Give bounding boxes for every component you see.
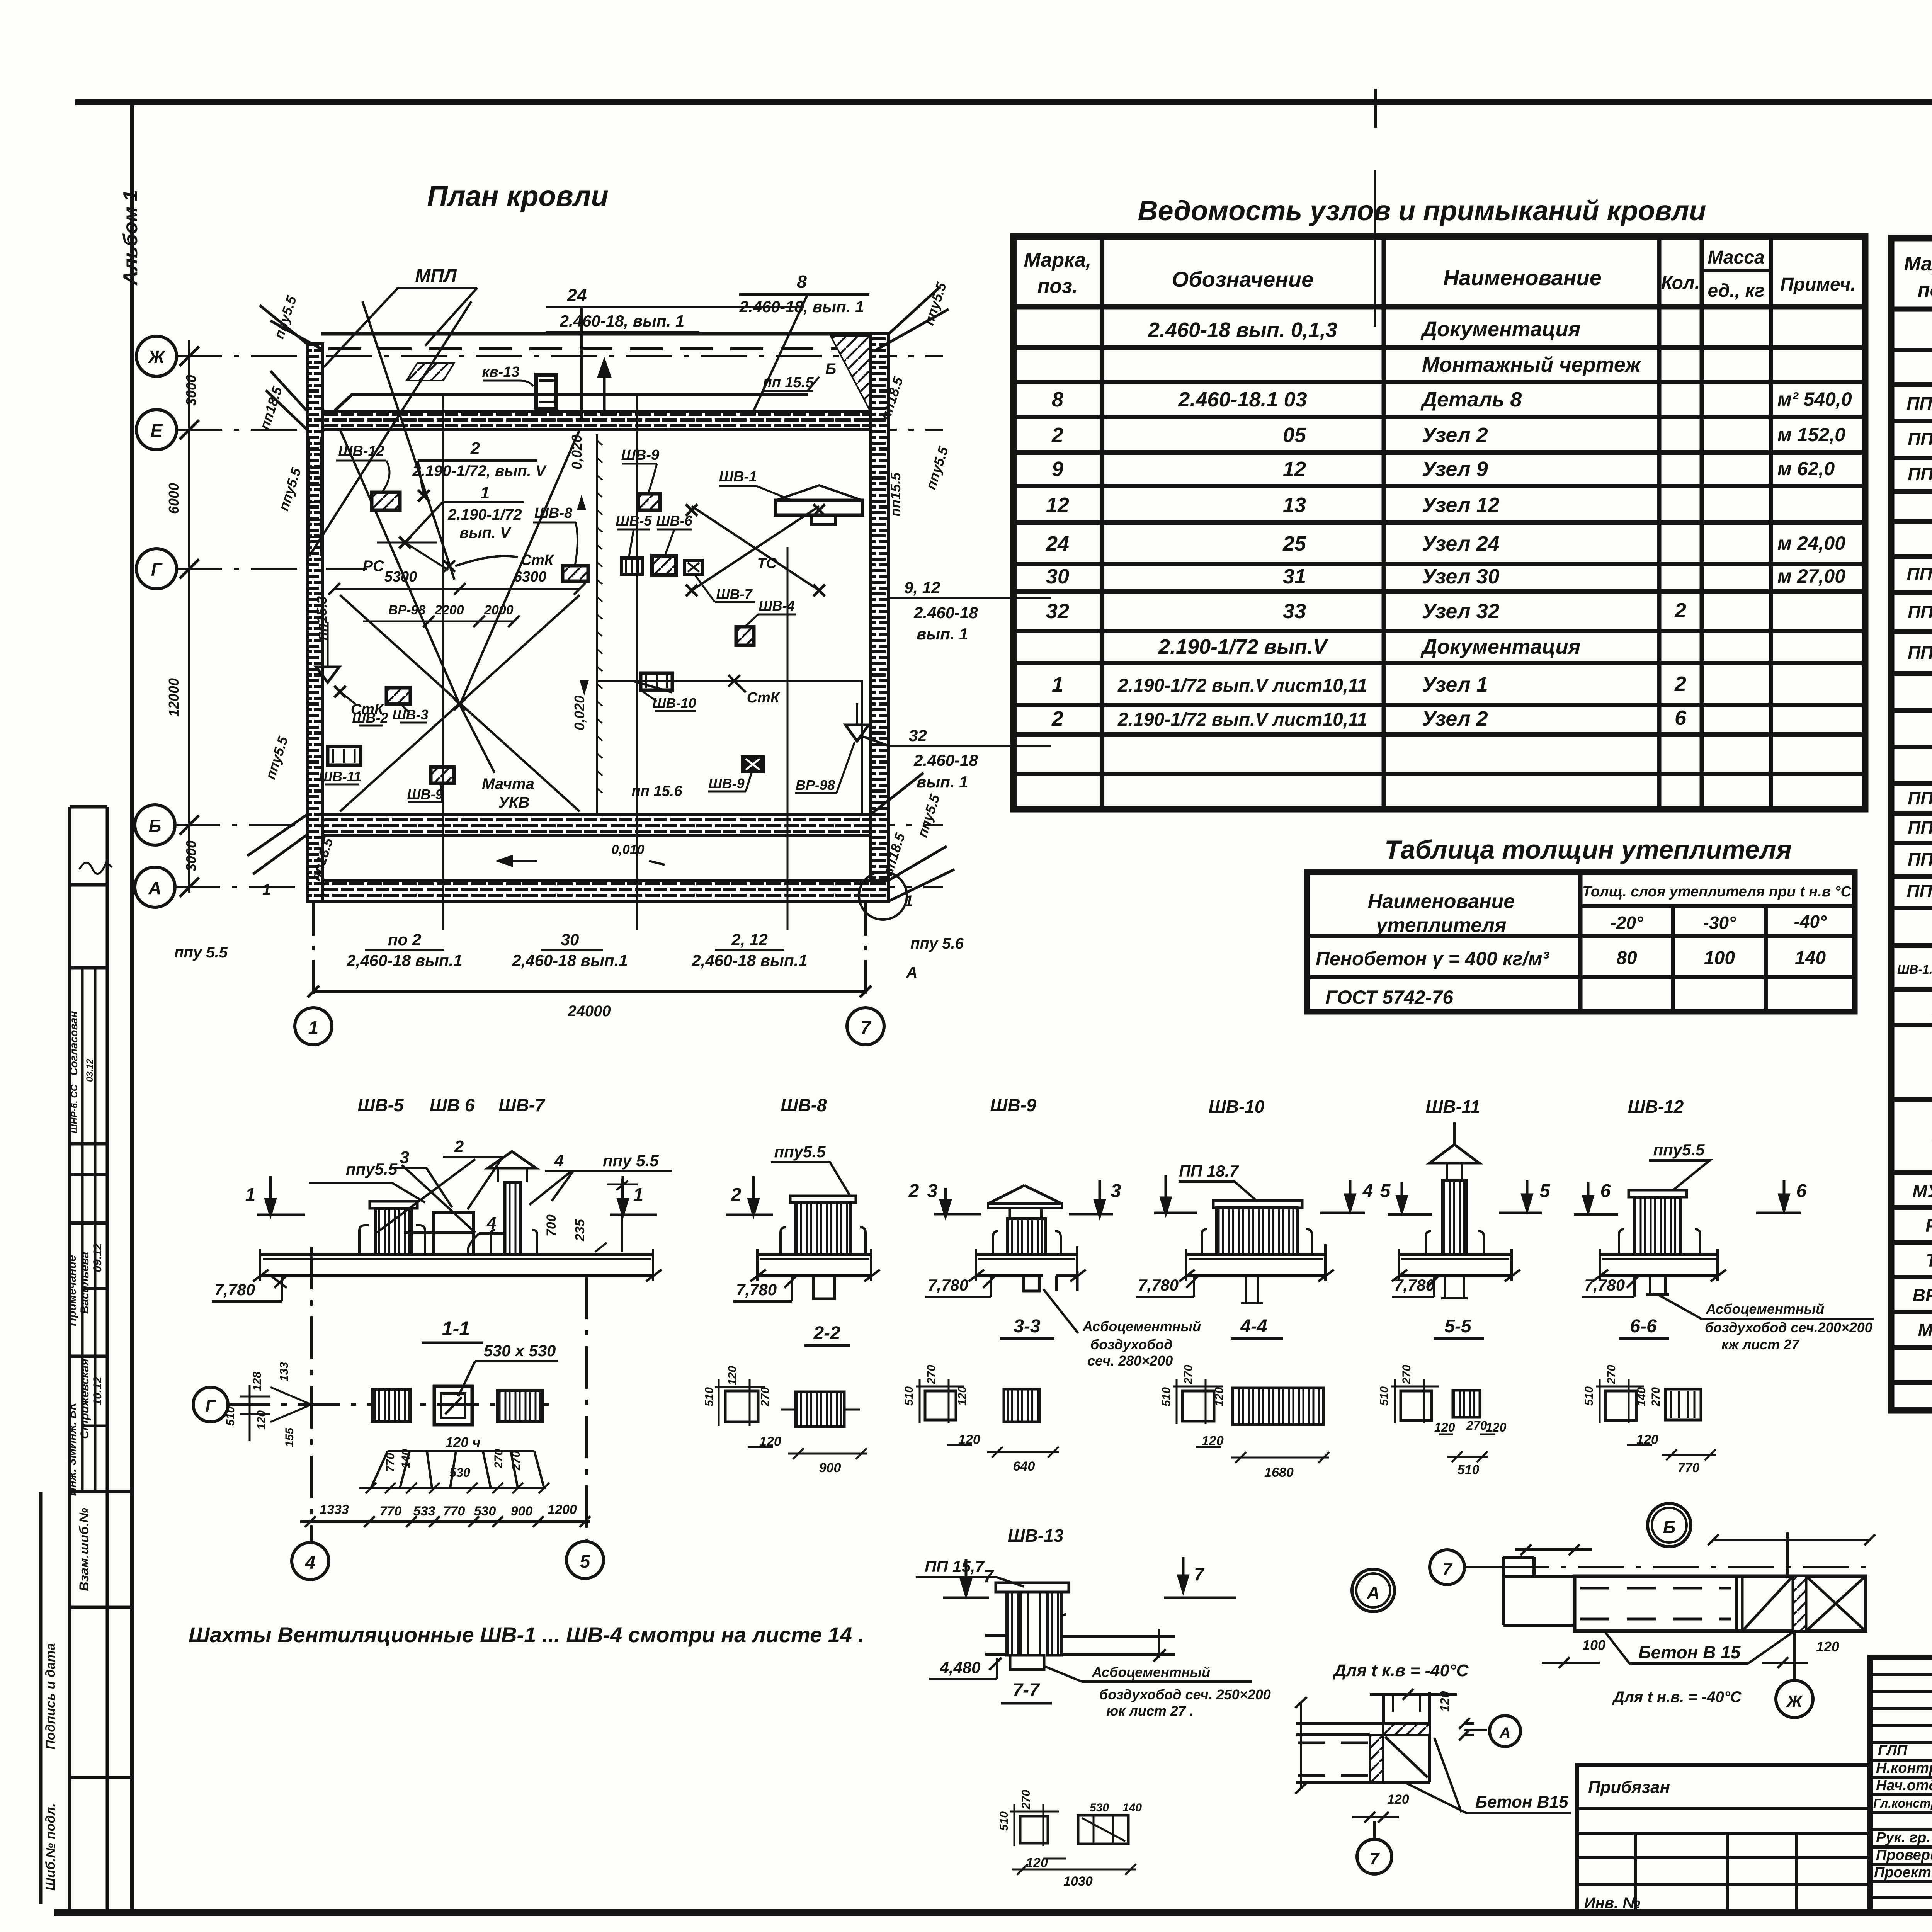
ШВ-9 section — [969, 1185, 1086, 1291]
svg-text:м 24,00: м 24,00 — [1777, 532, 1845, 554]
svg-text:270: 270 — [492, 1449, 505, 1469]
svg-text:пп18.5: пп18.5 — [257, 384, 286, 432]
svg-text:МПЛ: МПЛ — [1918, 1320, 1932, 1340]
svg-text:ПП18.7: ПП18.7 — [1908, 818, 1932, 838]
svg-text:5: 5 — [580, 1551, 591, 1572]
svg-text:кж лист 27: кж лист 27 — [1721, 1337, 1800, 1352]
svg-text:Ж: Ж — [148, 347, 166, 367]
svg-text:1: 1 — [262, 881, 271, 898]
svg-text:120: 120 — [956, 1386, 969, 1406]
svg-text:м 152,0: м 152,0 — [1777, 424, 1845, 446]
svg-text:2.190-1/72 вып.V лист10,11: 2.190-1/72 вып.V лист10,11 — [1117, 709, 1367, 730]
svg-text:УКВ: УКВ — [498, 794, 530, 811]
svg-text:1030: 1030 — [1063, 1874, 1093, 1889]
svg-text:530: 530 — [474, 1504, 496, 1519]
paper fold crease — [1374, 170, 1376, 327]
svg-text:140: 140 — [1122, 1801, 1142, 1814]
svg-text:530 х 530: 530 х 530 — [484, 1342, 556, 1360]
svg-text:ППУ5.5: ППУ5.5 — [1906, 881, 1932, 901]
svg-text:100: 100 — [1704, 948, 1735, 968]
svg-text:2: 2 — [1674, 672, 1686, 696]
svg-text:Узел 12: Узел 12 — [1422, 493, 1500, 517]
svg-text:ПП15.4: ПП15.4 — [1908, 643, 1932, 663]
svg-text:боздухобод сеч.200×200: боздухобод сеч.200×200 — [1705, 1320, 1872, 1335]
svg-text:120: 120 — [1026, 1855, 1048, 1870]
svg-text:270: 270 — [1182, 1365, 1195, 1384]
svg-text:8: 8 — [797, 272, 807, 292]
svg-text:140: 140 — [400, 1449, 412, 1468]
svg-text:Прибязан: Прибязан — [1588, 1778, 1670, 1797]
svg-text:30: 30 — [1046, 565, 1069, 588]
svg-text:4-4: 4-4 — [1240, 1316, 1267, 1337]
svg-text:Узел 24: Узел 24 — [1422, 532, 1500, 555]
svg-text:32: 32 — [909, 726, 927, 745]
top border line — [75, 99, 1932, 105]
svg-text:0,020: 0,020 — [571, 696, 587, 730]
svg-text:270: 270 — [925, 1365, 938, 1384]
svg-text:2.460-18: 2.460-18 — [913, 604, 978, 622]
svg-text:м 27,00: м 27,00 — [1777, 565, 1845, 587]
svg-text:Узел 2: Узел 2 — [1422, 707, 1488, 730]
svg-text:Асбоцементный: Асбоцементный — [1082, 1318, 1201, 1334]
left dimension chain — [188, 340, 190, 893]
svg-text:Асбоцементный: Асбоцементный — [1092, 1664, 1210, 1680]
svg-text:270: 270 — [1020, 1790, 1032, 1810]
svg-text:ППУ5.5: ППУ5.5 — [1906, 564, 1932, 584]
svg-text:Нач.отд.: Нач.отд. — [1876, 1777, 1932, 1794]
svg-text:510: 510 — [998, 1811, 1010, 1831]
svg-text:510: 510 — [1378, 1386, 1391, 1406]
svg-text:утеплителя: утеплителя — [1375, 914, 1506, 937]
svg-text:Проверил: Проверил — [1876, 1847, 1932, 1863]
svg-text:05: 05 — [1283, 423, 1306, 447]
ВР-98 right funnel — [845, 725, 869, 741]
svg-text:1-1: 1-1 — [442, 1318, 470, 1339]
svg-text:ШВ-11: ШВ-11 — [319, 769, 362, 784]
building walls — [307, 334, 889, 901]
kv-13 box on top strip — [536, 375, 556, 409]
big interior diagonals left half — [309, 301, 580, 811]
left frame vertical — [130, 102, 134, 1913]
svg-text:120 ч: 120 ч — [445, 1434, 480, 1450]
svg-text:ВР-98: ВР-98 — [388, 603, 425, 617]
axis grid dash-dot lines — [176, 355, 943, 357]
svg-text:МПЛ: МПЛ — [415, 266, 457, 286]
1-1 vertical axes — [311, 1247, 587, 1542]
svg-text:ппу5.5: ппу5.5 — [276, 466, 304, 513]
svg-text:ШВ-3: ШВ-3 — [392, 707, 428, 723]
svg-text:24: 24 — [566, 285, 587, 305]
svg-text:2.190-1/72 вып.V: 2.190-1/72 вып.V — [1158, 635, 1328, 658]
svg-text:Узел 1: Узел 1 — [1422, 673, 1488, 696]
svg-text:ПП18.8: ПП18.8 — [1908, 788, 1932, 808]
ШВ-9 left — [431, 767, 454, 783]
svg-text:4: 4 — [305, 1553, 316, 1573]
top centre tick — [1374, 89, 1377, 128]
svg-text:ШВ-12: ШВ-12 — [338, 443, 384, 459]
svg-text:100: 100 — [1582, 1637, 1605, 1653]
shaft 3 tall — [505, 1182, 520, 1255]
svg-text:А: А — [1366, 1583, 1379, 1603]
svg-text:м 62,0: м 62,0 — [1777, 458, 1835, 480]
svg-text:Г: Г — [205, 1396, 216, 1415]
svg-text:7,780: 7,780 — [1584, 1276, 1625, 1294]
svg-text:А: А — [906, 964, 918, 981]
svg-text:пп 15.6: пп 15.6 — [632, 783, 683, 799]
1-1 boxes — [372, 1389, 410, 1422]
svg-text:7,780: 7,780 — [1138, 1276, 1179, 1294]
svg-text:6: 6 — [1796, 1181, 1807, 1201]
svg-text:боздухобод сеч. 250×200: боздухобод сеч. 250×200 — [1099, 1687, 1271, 1702]
bottom leader verticals — [443, 394, 787, 930]
svg-text:9: 9 — [1052, 457, 1063, 481]
svg-text:План кровли: План кровли — [427, 180, 609, 212]
outside rotated labels right — [878, 280, 964, 981]
svg-text:ШВ-7: ШВ-7 — [498, 1095, 546, 1115]
svg-text:2-2: 2-2 — [813, 1323, 840, 1344]
detail 2-2 — [715, 1379, 867, 1459]
svg-text:Ж: Ж — [1786, 1692, 1803, 1711]
svg-text:120: 120 — [1387, 1792, 1409, 1807]
document strip verticals — [70, 807, 107, 1912]
svg-text:Марка,: Марка, — [1024, 249, 1092, 271]
cut marks row — [257, 1175, 1801, 1216]
svg-text:5: 5 — [1380, 1181, 1391, 1201]
big interior diagonals right half — [597, 506, 862, 815]
svg-text:6: 6 — [1675, 706, 1687, 730]
svg-text:ШВ-11: ШВ-11 — [1425, 1097, 1480, 1117]
svg-text:6: 6 — [1600, 1181, 1611, 1201]
svg-text:80: 80 — [1616, 948, 1637, 968]
svg-text:510: 510 — [1458, 1463, 1480, 1477]
ladder МПЛ on left wall — [309, 437, 321, 556]
svg-text:2.460-18, вып. 1: 2.460-18, вып. 1 — [560, 312, 685, 330]
svg-text:ПП15.7: ПП15.7 — [1908, 849, 1932, 869]
svg-text:сеч. 280×200: сеч. 280×200 — [1087, 1353, 1173, 1369]
svg-text:Узел 9: Узел 9 — [1422, 457, 1488, 481]
svg-text:Документация: Документация — [1420, 635, 1580, 658]
svg-text:ШВ-9: ШВ-9 — [621, 447, 659, 463]
svg-text:140: 140 — [1795, 948, 1826, 968]
svg-text:7: 7 — [1194, 1564, 1205, 1584]
svg-text:270: 270 — [1400, 1365, 1413, 1384]
1-1 bottom dims — [320, 1502, 577, 1519]
svg-text:ппу5.5: ппу5.5 — [1653, 1141, 1705, 1159]
strip inner subcolumns — [70, 968, 107, 1492]
svg-text:120: 120 — [726, 1366, 739, 1385]
hatch patches on top strip — [406, 363, 454, 381]
Б node beam detail — [1503, 1532, 1875, 1680]
svg-text:ПП 18.7: ПП 18.7 — [1179, 1162, 1239, 1180]
svg-text:ШВ-13: ШВ-13 — [1008, 1526, 1064, 1546]
svg-text:900: 900 — [511, 1504, 533, 1519]
svg-text:Проектир.: Проектир. — [1874, 1864, 1932, 1881]
svg-text:Для t н.в. = -40°С: Для t н.в. = -40°С — [1612, 1689, 1742, 1706]
svg-text:510: 510 — [903, 1386, 915, 1406]
bottom dimension 24000 — [313, 990, 866, 993]
svg-text:2,460-18 вып.1: 2,460-18 вып.1 — [691, 951, 807, 969]
svg-text:120: 120 — [1434, 1420, 1455, 1434]
svg-text:Пенобетон γ = 400 кг/м³: Пенобетон γ = 400 кг/м³ — [1316, 948, 1549, 969]
strip handwriting squiggle — [79, 862, 112, 874]
funnel ВР-98 left — [316, 667, 339, 682]
svg-text:510: 510 — [1583, 1386, 1595, 1406]
svg-text:2.190-1/72 вып.V лист10,11: 2.190-1/72 вып.V лист10,11 — [1117, 675, 1367, 696]
svg-text:Кол.: Кол. — [1661, 273, 1700, 293]
svg-text:1: 1 — [633, 1185, 644, 1205]
РС mast — [399, 537, 411, 548]
1-1 left dims — [224, 1362, 296, 1447]
svg-text:09.12: 09.12 — [91, 1243, 104, 1272]
svg-text:Деталь 8: Деталь 8 — [1420, 388, 1522, 411]
svg-text:270: 270 — [1466, 1418, 1487, 1432]
detail 5-5 — [1391, 1379, 1495, 1462]
svg-text:ппу 5.5: ппу 5.5 — [603, 1151, 659, 1170]
left rotated dimensions — [166, 375, 199, 871]
svg-text:770: 770 — [384, 1453, 397, 1472]
svg-text:530: 530 — [1090, 1801, 1109, 1814]
svg-text:6-6: 6-6 — [1630, 1316, 1657, 1337]
svg-text:Рук. гр.: Рук. гр. — [1876, 1830, 1930, 1846]
svg-text:120: 120 — [1438, 1691, 1452, 1712]
node circle А standalone — [1352, 1569, 1395, 1612]
svg-text:7,780: 7,780 — [736, 1281, 777, 1299]
svg-text:2.190-1/72, вып. V: 2.190-1/72, вып. V — [412, 463, 547, 480]
svg-text:7-7: 7-7 — [1012, 1680, 1040, 1701]
svg-text:МУКВ: МУКВ — [1913, 1181, 1932, 1201]
svg-text:770: 770 — [380, 1504, 402, 1519]
svg-text:9, 12: 9, 12 — [904, 578, 940, 597]
svg-text:33: 33 — [1283, 600, 1306, 623]
svg-text:770: 770 — [1678, 1461, 1700, 1475]
svg-text:6000: 6000 — [166, 483, 182, 514]
svg-text:боздухобод: боздухобод — [1090, 1337, 1173, 1352]
svg-text:3-3: 3-3 — [1014, 1316, 1041, 1337]
bottom labels — [346, 930, 807, 969]
top roof strip — [321, 334, 871, 411]
svg-text:Узел 30: Узел 30 — [1422, 565, 1500, 588]
Г axis circle — [193, 1387, 228, 1422]
corner node circle on plan — [859, 872, 907, 920]
svg-text:ШВ-9: ШВ-9 — [990, 1095, 1036, 1115]
ШВ-12 section — [1593, 1190, 1726, 1294]
svg-text:770: 770 — [443, 1504, 465, 1519]
СтК 2 — [334, 686, 346, 697]
svg-text:Асбоцементный: Асбоцементный — [1706, 1301, 1824, 1317]
svg-text:30: 30 — [561, 930, 579, 949]
svg-text:ппу 5.6: ппу 5.6 — [910, 935, 964, 952]
ШВ-10 — [641, 673, 672, 690]
svg-text:ШВ-2: ШВ-2 — [352, 710, 388, 726]
svg-text:пп15.3: пп15.3 — [314, 596, 330, 640]
signature rows — [1873, 1726, 1932, 1881]
svg-text:2: 2 — [1051, 423, 1063, 447]
svg-text:120: 120 — [1202, 1434, 1224, 1448]
detail 3-3 — [916, 1379, 1059, 1458]
outside rotated labels left — [174, 294, 336, 961]
north arrow on strip — [599, 361, 610, 414]
svg-text:ппу5.5: ппу5.5 — [346, 1160, 398, 1178]
svg-text:4,480: 4,480 — [939, 1658, 980, 1677]
svg-text:2: 2 — [454, 1137, 464, 1156]
svg-text:ШВ-9: ШВ-9 — [407, 786, 443, 802]
svg-text:7: 7 — [983, 1566, 994, 1586]
svg-text:Наименование: Наименование — [1368, 890, 1515, 913]
svg-text:120: 120 — [958, 1432, 980, 1447]
svg-text:3: 3 — [1111, 1181, 1121, 1201]
ШВ-9 lower right — [742, 757, 764, 772]
svg-text:25: 25 — [1282, 532, 1306, 555]
svg-text:2: 2 — [731, 1185, 742, 1205]
svg-text:510: 510 — [1160, 1387, 1173, 1406]
svg-text:ШВ-6: ШВ-6 — [656, 513, 692, 529]
А node corner detail — [1295, 1689, 1457, 1794]
svg-text:юк лист 27 .: юк лист 27 . — [1106, 1703, 1194, 1719]
svg-text:поз.: поз. — [1918, 279, 1932, 301]
node circle 7 with leader — [1430, 1550, 1464, 1585]
svg-text:вып. 1: вып. 1 — [917, 773, 968, 791]
svg-text:120: 120 — [1636, 1432, 1658, 1447]
svg-text:03.12: 03.12 — [85, 1058, 95, 1082]
svg-text:155: 155 — [283, 1427, 296, 1447]
svg-text:ппу5.5: ппу5.5 — [921, 280, 950, 327]
svg-text:2, 12: 2, 12 — [731, 930, 767, 949]
svg-text:1200: 1200 — [548, 1502, 577, 1517]
svg-text:Васильева: Васильева — [78, 1252, 91, 1314]
СтК right — [728, 675, 746, 692]
svg-text:2: 2 — [1051, 707, 1063, 730]
svg-text:2: 2 — [470, 439, 480, 458]
svg-text:7: 7 — [1370, 1849, 1380, 1868]
svg-text:270: 270 — [510, 1451, 522, 1471]
svg-text:ТС: ТС — [1926, 1250, 1932, 1270]
svg-text:1: 1 — [308, 1018, 319, 1038]
svg-text:СтК: СтК — [521, 552, 554, 568]
svg-text:120: 120 — [255, 1410, 268, 1430]
svg-text:24: 24 — [1046, 532, 1069, 555]
svg-text:ШВ-4: ШВ-4 — [759, 598, 794, 614]
svg-text:2: 2 — [1674, 599, 1686, 622]
plan corner flare lines — [247, 288, 954, 901]
svg-text:вып. 1: вып. 1 — [917, 625, 968, 643]
bottom border line — [54, 1909, 1932, 1916]
svg-text:Монтажный чертеж: Монтажный чертеж — [1422, 353, 1642, 376]
svg-text:120: 120 — [1816, 1639, 1839, 1655]
svg-text:ГЛП: ГЛП — [1878, 1742, 1908, 1759]
svg-text:Толщ. слоя утеплителя при t н: Толщ. слоя утеплителя при t н.в °С — [1582, 884, 1851, 900]
svg-text:2,460-18 вып.1: 2,460-18 вып.1 — [346, 951, 462, 969]
svg-text:1680: 1680 — [1264, 1465, 1294, 1480]
svg-text:ПП 15,7: ПП 15,7 — [925, 1557, 985, 1575]
svg-text:3000: 3000 — [183, 840, 199, 871]
svg-text:ШВ-9: ШВ-9 — [708, 776, 744, 791]
svg-text:ппу 5.5: ппу 5.5 — [174, 944, 228, 961]
svg-text:700: 700 — [544, 1214, 559, 1236]
svg-text:13: 13 — [1283, 493, 1306, 517]
svg-text:ШВ-1: ШВ-1 — [719, 469, 757, 485]
svg-text:Взам.шиб.№: Взам.шиб.№ — [77, 1508, 92, 1591]
svg-text:7,780: 7,780 — [214, 1281, 255, 1299]
svg-text:РС: РС — [1925, 1216, 1932, 1236]
svg-text:м² 540,0: м² 540,0 — [1777, 388, 1852, 410]
svg-text:12: 12 — [1283, 457, 1306, 481]
svg-text:ШВ-5: ШВ-5 — [616, 513, 652, 529]
svg-text:Н.контр.: Н.контр. — [1876, 1760, 1932, 1776]
svg-text:Шиб.№ подл.: Шиб.№ подл. — [43, 1803, 58, 1891]
svg-text:Обозначение: Обозначение — [1172, 267, 1314, 291]
svg-text:пп 15.5: пп 15.5 — [763, 374, 814, 391]
svg-text:вып. V: вып. V — [459, 524, 512, 541]
svg-text:140: 140 — [1635, 1387, 1648, 1406]
svg-text:640: 640 — [1013, 1459, 1035, 1474]
svg-text:2.460-18.1 03: 2.460-18.1 03 — [1178, 388, 1307, 411]
svg-text:Альбом 1: Альбом 1 — [119, 190, 142, 286]
svg-text:А: А — [148, 878, 161, 898]
svg-text:270: 270 — [1650, 1387, 1662, 1407]
shaft 1 — [375, 1208, 412, 1255]
ШВ-8 section — [750, 1196, 880, 1299]
svg-text:235: 235 — [573, 1219, 587, 1242]
svg-text:ГОСТ 5742-76: ГОСТ 5742-76 — [1325, 986, 1454, 1008]
svg-text:Примечание: Примечание — [66, 1255, 78, 1326]
svg-text:ВР-98: ВР-98 — [796, 777, 835, 793]
strip rotated labels — [43, 1011, 104, 1891]
svg-text:ШВ-7: ШВ-7 — [716, 586, 753, 602]
svg-text:2000: 2000 — [484, 603, 514, 617]
svg-text:ППУ5.5: ППУ5.5 — [1906, 393, 1932, 413]
svg-text:2.460-18: 2.460-18 — [913, 751, 978, 769]
svg-text:270: 270 — [1605, 1365, 1618, 1384]
ШВ-11 section — [1392, 1122, 1520, 1298]
Прибязан box — [1577, 1765, 1870, 1913]
svg-text:Мачта: Мачта — [482, 776, 534, 793]
svg-text:ппу5.5: ппу5.5 — [923, 444, 952, 492]
svg-text:ед., кг: ед., кг — [1708, 281, 1765, 301]
svg-text:1333: 1333 — [320, 1502, 349, 1517]
detail 6-6 — [1596, 1379, 1716, 1460]
svg-text:Марка,: Марка, — [1904, 253, 1932, 275]
svg-text:ппу5.5: ппу5.5 — [262, 734, 291, 781]
bottom axis circles — [313, 901, 866, 994]
section titles row — [357, 1095, 1684, 1117]
svg-text:-40°: -40° — [1794, 912, 1827, 932]
svg-text:2: 2 — [908, 1181, 919, 1201]
svg-text:2.460-18 вып. 0,1,3: 2.460-18 вып. 0,1,3 — [1148, 318, 1337, 342]
svg-text:900: 900 — [819, 1461, 841, 1475]
svg-text:5: 5 — [1540, 1181, 1551, 1201]
svg-text:Для t к.в = -40°С: Для t к.в = -40°С — [1332, 1661, 1469, 1680]
svg-text:24000: 24000 — [567, 1003, 611, 1020]
svg-text:4: 4 — [554, 1151, 564, 1170]
svg-text:12: 12 — [1046, 493, 1069, 517]
detail 4-4 — [1173, 1379, 1329, 1463]
strip horizontal dividers — [41, 807, 132, 1904]
svg-text:РС: РС — [362, 558, 384, 575]
svg-text:2200: 2200 — [434, 603, 464, 617]
svg-text:Бетон В15: Бетон В15 — [1475, 1793, 1568, 1811]
svg-text:270: 270 — [759, 1387, 772, 1407]
svg-text:2,460-18 вып.1: 2,460-18 вып.1 — [512, 951, 628, 969]
node circle Ж — [1776, 1680, 1813, 1718]
svg-text:6300: 6300 — [514, 569, 547, 585]
svg-text:Наименование: Наименование — [1443, 265, 1602, 290]
svg-text:Узел 32: Узел 32 — [1422, 600, 1500, 623]
svg-text:ВР-98: ВР-98 — [1913, 1285, 1932, 1305]
svg-text:ШВ-1...ШВ-13: ШВ-1...ШВ-13 — [1897, 963, 1932, 976]
svg-text:5300: 5300 — [384, 569, 417, 585]
svg-text:7,780: 7,780 — [928, 1276, 968, 1294]
svg-text:Ведомость узлов и примыкан: Ведомость узлов и примыканий кровли — [1138, 196, 1706, 226]
